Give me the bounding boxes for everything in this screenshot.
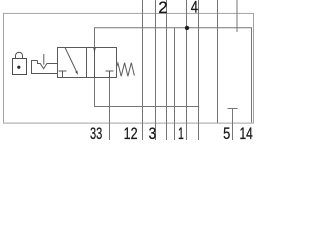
wire port 33 from valve chamber down bbox=[109, 71, 111, 140]
label 3 bbox=[149, 124, 157, 143]
valve chamber divider bbox=[86, 48, 88, 78]
junction dot bbox=[185, 26, 189, 30]
spring return bbox=[117, 63, 135, 77]
wire port 3 vertical bbox=[155, 0, 157, 140]
detent pin stem bbox=[43, 54, 45, 65]
label 5 bbox=[223, 124, 230, 143]
wire port 4 vertical bbox=[198, 0, 200, 140]
wire W2 valve port 3 down and right bbox=[95, 78, 199, 107]
label 1 bbox=[178, 123, 184, 142]
manual override detent bracket bbox=[32, 61, 58, 74]
exhaust T symbol on port 14 line bbox=[228, 108, 238, 110]
arrowhead on vertical path bbox=[93, 48, 95, 53]
wire port 2 vertical bbox=[166, 0, 168, 140]
left chamber diagonal flow path bbox=[65, 48, 77, 72]
svg-text:1: 1 bbox=[178, 123, 184, 140]
label 12 bbox=[124, 125, 138, 143]
wire port 5 vertical bbox=[217, 0, 219, 123]
wire port 14 pilot vertical top bbox=[236, 0, 238, 32]
svg-text:2: 2 bbox=[158, 0, 167, 17]
svg-text:12: 12 bbox=[124, 125, 138, 140]
padlock keyhole dot bbox=[17, 66, 20, 69]
wire port 12 vertical bbox=[142, 0, 144, 140]
valve body 3/2 bbox=[58, 48, 117, 78]
border frame bbox=[4, 13, 254, 123]
label 14 bbox=[240, 125, 253, 143]
wire W1 valve output 2 up and right bbox=[95, 28, 252, 123]
label 4 bbox=[191, 0, 198, 17]
svg-text:33: 33 bbox=[90, 125, 102, 140]
svg-text:3: 3 bbox=[149, 124, 157, 140]
left chamber blocked port T1 bbox=[59, 71, 67, 78]
padlock body bbox=[13, 59, 27, 75]
padlock shackle bbox=[16, 52, 23, 58]
wire stub port 1 supply vertical bbox=[174, 28, 176, 140]
svg-text:4: 4 bbox=[191, 0, 198, 17]
right chamber flow path bbox=[94, 48, 96, 78]
label 33 bbox=[90, 125, 102, 144]
right chamber blocked port T2 bbox=[106, 71, 114, 78]
arrowhead on diagonal path bbox=[75, 71, 78, 75]
wire port 14 exhaust stem bbox=[232, 109, 234, 141]
wire port 1 vertical bbox=[186, 0, 188, 140]
svg-text:5: 5 bbox=[223, 124, 230, 140]
svg-text:14: 14 bbox=[240, 125, 253, 140]
label 2 bbox=[158, 0, 167, 17]
